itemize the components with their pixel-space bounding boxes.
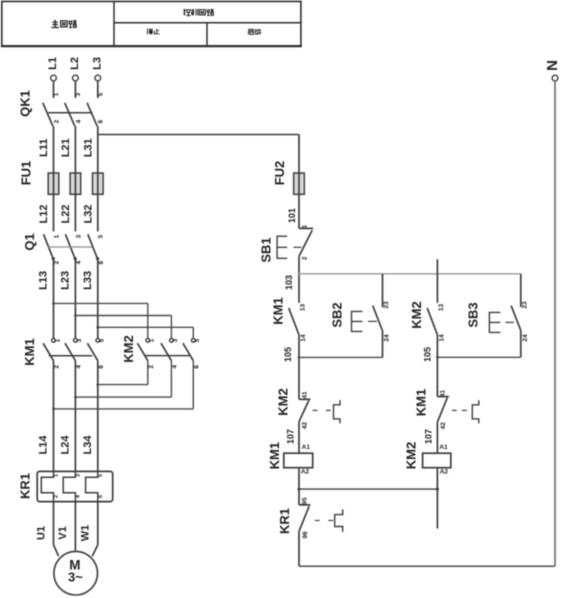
coil KM2 pin A2 [440,468,449,475]
KR1 NC contact [299,497,311,539]
svg-text:KR1: KR1 [277,508,292,534]
svg-text:W1: W1 [80,525,92,542]
circuit breaker QK1 pole 3 [87,92,105,126]
wire label L14 [38,435,50,455]
wire Q1 to KM1 pole 2 [74,259,76,338]
node L1 supply terminal [47,57,59,98]
svg-text:5: 5 [98,92,105,96]
header cell text: start (qi dong) [248,29,261,35]
wire net 101 [287,194,299,228]
svg-text:KM1: KM1 [22,338,37,365]
wire KM1 pole 2 output down to KR1 [74,361,76,472]
svg-text:6: 6 [98,365,105,369]
wire KM1 pole 3 output down to KR1 [97,361,99,472]
svg-text:L12: L12 [38,205,50,224]
svg-text:SB1: SB1 [259,237,274,262]
Q1 mechanical linkage [48,246,92,248]
thermal relay KR1 heater element pole 1 [41,471,59,501]
push button SB1 (stop, NC) label [259,237,274,262]
wire QK1 pole 1 to FU1 [53,126,55,173]
wire KM2 pole 2 output crossover to phase line [74,361,171,399]
wire coil bottom rail [299,488,437,490]
wire label V1 [57,526,69,539]
wire tap phase 3 to KM2 pole 3 [96,326,193,338]
coil KM1 pin A1 [302,444,311,451]
fuse FU1 label [19,161,34,186]
svg-text:1: 1 [53,234,60,238]
wire QK1 pole 2 to FU1 [74,126,76,173]
svg-text:6: 6 [193,365,200,369]
wire Q1 to KM1 pole 1 [53,259,55,338]
fuse FU2 [294,173,305,194]
svg-text:101: 101 [287,208,297,223]
wire label L31 [82,138,94,157]
SB2 actuator head [352,311,378,331]
wire label L22 [60,205,72,224]
svg-text:KM1: KM1 [414,389,429,416]
wire label L13 [38,271,50,290]
node L3 supply terminal [91,57,103,98]
svg-text:105: 105 [283,347,293,362]
fuse FU1 element 2 [70,173,81,194]
contactor KM1 NC interlock contact label [414,389,429,416]
svg-text:24: 24 [384,334,391,342]
wire KM2 pole 3 output crossover to phase line [52,361,193,411]
svg-text:2: 2 [53,119,60,123]
svg-text:L22: L22 [60,205,72,224]
wire KM1 coil to junction [298,468,301,505]
svg-text:13: 13 [300,304,307,312]
KM2 interlock actuator linkage [313,400,340,423]
svg-text:A2: A2 [301,469,310,476]
svg-text:L11: L11 [38,139,50,157]
SB3 actuator head [489,312,514,332]
svg-text:L24: L24 [60,435,72,455]
KM1 mechanical linkage [49,355,93,357]
svg-text:KM1: KM1 [267,442,282,469]
svg-text:A1: A1 [302,444,311,451]
wire net 103 [284,256,299,303]
svg-text:L23: L23 [60,271,72,290]
svg-text:6: 6 [98,260,105,264]
KM2 auxiliary NO contact [427,304,445,342]
wire tap phase 1 to KM2 pole 1 [52,302,148,338]
fuse FU2 label [272,161,287,186]
wire branch rail 103 [298,273,521,276]
wire net 107 (right) [423,422,437,453]
svg-text:4: 4 [76,260,83,264]
wire label L33 [82,271,94,290]
wire label L23 [60,271,72,290]
svg-text:3: 3 [75,474,81,477]
header cell text: control-circuit (kong zhi hui lu) [183,9,213,16]
header table frame [1,1,302,46]
svg-text:1: 1 [54,338,61,342]
contactor KM1 main contact pole 3 [87,338,105,368]
svg-text:FU2: FU2 [272,161,287,186]
node N neutral terminal [544,60,561,566]
circuit breaker QK1 pole 2 [65,92,83,126]
svg-text:Q1: Q1 [22,233,37,250]
svg-text:6: 6 [98,119,105,123]
wire label L11 [38,139,50,157]
wire net 105 (right) [423,335,438,397]
wire FU1 to Q1 pole 2 [74,194,76,231]
svg-text:2: 2 [302,256,309,260]
wire FU1 to Q1 pole 1 [53,194,55,231]
wire net 107 (left) [285,422,299,454]
svg-text:105: 105 [423,347,433,362]
wire KR1 to motor W [92,502,98,557]
svg-text:2: 2 [54,260,61,264]
svg-text:5: 5 [99,338,106,342]
svg-text:13: 13 [438,304,445,312]
fuse FU1 element 1 [48,173,59,194]
svg-text:N: N [544,60,561,71]
wire Q1 to KM1 pole 3 [97,259,99,338]
node L2 supply terminal [69,57,81,98]
contactor KM1 main contact pole 2 [65,338,83,368]
svg-text:L31: L31 [82,138,94,157]
contactor KM2 label [121,335,136,362]
KM2 NC interlock contact [299,391,311,429]
svg-text:5: 5 [194,338,201,342]
svg-text:1: 1 [302,224,309,228]
coil KM1 [284,453,313,468]
wire QK1 pole 3 to FU1 [97,126,99,173]
thermal relay KR1 NC contact label [277,508,292,534]
svg-text:107: 107 [423,429,433,444]
thermal relay KR1 label [18,473,33,499]
coil KM1 pin A2 [301,469,310,476]
svg-text:1: 1 [54,474,60,477]
wire net 105 (left) [283,335,299,400]
svg-text:107: 107 [285,429,295,444]
wire label L24 [60,435,72,455]
svg-text:23: 23 [521,301,528,309]
svg-text:3: 3 [172,338,179,342]
contactor KM2 main contact pole 1 [137,338,155,368]
svg-text:KM2: KM2 [409,301,424,328]
svg-text:SB3: SB3 [466,302,481,327]
QK1 mechanical linkage [48,112,92,114]
coil KM2 [423,453,451,468]
svg-text:U1: U1 [35,526,47,540]
wire SB2 bottom connector [298,331,383,359]
svg-text:FU1: FU1 [19,161,34,186]
SB2 branch wire from rail [382,274,384,307]
svg-text:6: 6 [98,495,104,498]
wire KR1 contact to bottom rail [298,531,300,566]
svg-text:A2: A2 [440,468,449,475]
wire KR1 to motor V [74,502,76,551]
svg-text:4: 4 [172,365,179,369]
svg-text:L32: L32 [82,205,94,224]
svg-text:1: 1 [149,338,156,342]
thermal relay KR1 heater element pole 3 [86,471,104,501]
coil KM2 pin A1 [439,444,448,451]
svg-text:QK1: QK1 [18,90,33,117]
svg-text:SB2: SB2 [330,302,345,327]
svg-text:KM2: KM2 [121,335,136,362]
KM1 NC interlock contact [437,390,449,430]
contactor KM2 main contact pole 3 [183,338,201,368]
wire bottom rail to N [299,565,555,567]
svg-text:103: 103 [284,275,294,290]
svg-text:KM2: KM2 [276,388,291,415]
switch Q1 pole 2 [65,234,82,264]
KM2 auxiliary branch wire [436,274,438,303]
svg-text:L21: L21 [60,138,72,157]
wire label L12 [38,205,50,224]
KM1 auxiliary NO contact [289,304,307,342]
contactor KM2 auxiliary NO contact label [409,301,424,328]
svg-text:L2: L2 [69,57,81,70]
switch Q1 pole 3 [88,234,105,264]
svg-text:42: 42 [301,422,308,430]
svg-text:2: 2 [54,495,60,498]
switch Q1 label [22,233,37,250]
thermal relay KR1 box [37,471,113,501]
wire FU1 to Q1 pole 3 [97,194,99,231]
KM2 mechanical linkage [145,355,190,357]
push button SB3 (start rev, NO) label [466,302,481,327]
thermal relay KR1 heater element pole 2 [63,471,81,501]
svg-text:KM1: KM1 [271,297,286,324]
push button SB2 (start fwd, NO) label [330,302,345,327]
svg-text:41: 41 [301,391,308,399]
wire stub above rail at KM2 branch [436,259,438,274]
wire KR1 to motor U [54,502,59,557]
switch Q1 pole 1 [44,234,61,264]
svg-text:96: 96 [302,531,309,539]
svg-text:1: 1 [53,92,60,96]
wire tap to control circuit (from phase 3) [98,135,299,174]
wire label L32 [82,205,94,224]
push button SB3 contact [511,301,529,342]
wire label U1 [35,526,47,540]
svg-text:L34: L34 [82,435,94,455]
motor M 3~ [54,551,98,595]
svg-text:V1: V1 [57,526,69,539]
coil KM2 label [403,442,418,469]
push button SB1 contact [299,224,313,260]
svg-text:3~: 3~ [68,570,83,585]
push button SB2 contact [373,301,391,342]
svg-text:2: 2 [148,365,155,369]
wire KM2 coil to rail with stub [436,468,439,529]
SB1 actuator head [277,236,301,258]
fuse FU1 element 3 [93,173,104,194]
svg-text:24: 24 [522,334,529,342]
svg-text:L3: L3 [91,57,103,70]
svg-text:3: 3 [76,338,83,342]
wire SB3 bottom connector [436,331,521,359]
wire label L21 [60,138,72,157]
svg-text:L33: L33 [82,271,94,290]
wire KM1 pole 1 output down to KR1 [53,361,55,472]
contactor KM2 main contact pole 2 [161,338,179,368]
svg-text:23: 23 [383,301,390,309]
header cell text: main-circuit (zhu hui lu) [51,20,76,27]
contactor KM1 auxiliary NO contact label [271,297,286,324]
svg-text:KR1: KR1 [18,473,33,499]
contactor KM1 label [22,338,37,365]
header cell text: stop (ting zhi) [147,29,160,35]
KR1 contact actuator linkage [315,509,343,532]
coil KM1 label [267,442,282,469]
SB3 branch wire from rail [520,274,522,307]
svg-text:3: 3 [75,234,82,238]
svg-text:3: 3 [75,92,82,96]
svg-text:14: 14 [300,334,307,342]
svg-text:KM2: KM2 [403,442,418,469]
svg-text:L13: L13 [38,271,50,290]
svg-text:2: 2 [54,365,61,369]
wire tap phase 2 to KM2 pole 2 [74,314,171,338]
svg-text:95: 95 [301,497,308,505]
KM1 interlock actuator linkage [452,400,479,423]
contactor KM2 NC interlock contact label [276,388,291,415]
svg-text:L14: L14 [38,435,50,455]
svg-text:L1: L1 [47,57,59,70]
svg-text:4: 4 [75,119,82,123]
svg-text:5: 5 [98,234,105,238]
circuit breaker QK1 label [18,90,33,117]
svg-text:14: 14 [439,334,446,342]
svg-text:A1: A1 [439,444,448,451]
circuit breaker QK1 pole 1 [43,92,61,126]
wire label W1 [80,525,92,542]
wire KM2 pole 1 output crossover to phase line [96,361,147,386]
contactor KM1 main contact pole 1 [43,338,61,368]
svg-text:5: 5 [98,474,104,477]
svg-text:42: 42 [440,422,447,430]
wire label L34 [82,435,94,455]
svg-text:4: 4 [76,365,83,369]
